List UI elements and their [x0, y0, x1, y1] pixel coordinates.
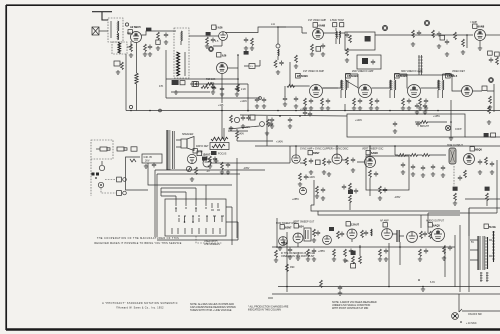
- fine tuning boxes: [172, 80, 179, 85]
- svg-text:+140V: +140V: [355, 119, 362, 122]
- svg-text:2 6J6: 2 6J6: [216, 26, 223, 30]
- contacts row3: [172, 228, 220, 234]
- driver tube: [407, 232, 418, 243]
- volume cluster: [445, 40, 449, 45]
- plug P2: [117, 147, 127, 151]
- svg-text:+140V: +140V: [300, 108, 307, 111]
- top right parts: [244, 51, 249, 55]
- vert out tube: [293, 233, 303, 243]
- svg-text:4.5MC TRAP: 4.5MC TRAP: [330, 19, 344, 22]
- small parts on feed: [114, 61, 120, 66]
- sync amp tube: [292, 155, 300, 163]
- svg-text:R19 10K: R19 10K: [206, 78, 216, 81]
- discriminator parts columns: [375, 34, 473, 36]
- parts right of tube: [478, 160, 482, 165]
- right parts cluster: [488, 51, 493, 55]
- parts right of clipper: [346, 157, 349, 165]
- svg-text:UHF MODELS: UHF MODELS: [204, 243, 220, 246]
- interlock dark terminals: [92, 173, 95, 176]
- clipper tube: [332, 154, 342, 164]
- svg-text:C5 6CB6: C5 6CB6: [347, 74, 358, 78]
- antenna transformer box (dashed): [108, 18, 123, 42]
- main B+ bus from tuner: [126, 110, 500, 112]
- plate wire of V1: [142, 31, 177, 35]
- bottom wire: [157, 232, 238, 240]
- bus extension: [465, 136, 500, 138]
- border frame top: [6, 4, 500, 6]
- svg-text:6SN7: 6SN7: [285, 225, 292, 229]
- blocking tube: [323, 236, 332, 245]
- svg-text:CONT: CONT: [455, 128, 462, 131]
- hor osc tube: [279, 237, 288, 246]
- wires: [300, 160, 365, 163]
- vert osc loop rect: [366, 156, 409, 190]
- bus junctions: [247, 110, 249, 112]
- svg-text:+140V: +140V: [276, 141, 283, 144]
- svg-text:5V: 5V: [471, 241, 474, 244]
- svg-text:+140V: +140V: [240, 100, 247, 103]
- B+ filter resistor chain: [398, 154, 406, 157]
- dashed UHF link: [196, 236, 222, 243]
- IF transformer 3: [438, 80, 439, 90]
- contacts row2: [178, 216, 186, 222]
- width coil box: [465, 198, 500, 200]
- svg-text:HOR OUTPUT: HOR OUTPUT: [447, 144, 463, 147]
- IF tube 2: [359, 85, 372, 98]
- osc label: [217, 53, 221, 57]
- long wires: [148, 163, 232, 185]
- B+ boxed terminals: [117, 177, 122, 182]
- B box: [194, 82, 199, 87]
- svg-text:RECEIVER MAKES IT POSSIBLE TO: RECEIVER MAKES IT POSSIBLE TO BRING YOU …: [94, 242, 181, 245]
- svg-text:AUDIO OUTPUT: AUDIO OUTPUT: [426, 220, 445, 223]
- svg-text:+140V: +140V: [243, 126, 250, 129]
- video amp cathode parts: [311, 44, 314, 52]
- svg-text:OPERATION SEE PARTS LIST: OPERATION SEE PARTS LIST: [281, 255, 315, 258]
- svg-text:+ 117VAC: + 117VAC: [466, 322, 477, 325]
- mixer tube V2a: [219, 32, 228, 41]
- feed from +105: [222, 106, 224, 139]
- wire mixer to video amp: [278, 27, 307, 33]
- alignment diamond: [209, 47, 214, 52]
- svg-text:VERT SWEEP OUT: VERT SWEEP OUT: [293, 221, 315, 224]
- svg-text:SYNC AMP + SYNC CLIPPER + SYNC: SYNC AMP + SYNC CLIPPER + SYNC DISC: [300, 148, 349, 151]
- IF transformer 1: [341, 80, 342, 90]
- border frame bottom: [6, 328, 500, 330]
- plug P3: [131, 147, 273, 298]
- audio output tube: [432, 229, 445, 242]
- svg-text:VERT SWEEP OSC: VERT SWEEP OSC: [362, 148, 384, 151]
- svg-text:2KV: 2KV: [145, 160, 150, 163]
- svg-text:TAKEN WITH VTVM + LINE VOLTAGE: TAKEN WITH VTVM + LINE VOLTAGE: [190, 309, 232, 312]
- contacts row1: [175, 201, 177, 212]
- svg-text:6.3V: 6.3V: [430, 281, 435, 284]
- line from HV cage: [468, 208, 470, 236]
- IF tube 1: [310, 85, 323, 98]
- cathode parts below V1: [144, 44, 147, 52]
- svg-text:+285V: +285V: [292, 198, 299, 201]
- IF tube 3: [408, 85, 421, 98]
- feed wires from top: [176, 185, 206, 201]
- svg-text:6BQ6: 6BQ6: [475, 147, 482, 151]
- grid resistor under tube: [130, 44, 133, 52]
- taps: [470, 240, 492, 260]
- svg-text:A "PHOTOFACT" STANDARD NOTATIO: A "PHOTOFACT" STANDARD NOTATION SCHEMATI…: [102, 302, 178, 305]
- audio output transformer T7: [166, 130, 168, 170]
- svg-text:3RD VIDEO IF AMP: 3RD VIDEO IF AMP: [401, 70, 423, 73]
- agc cluster below bus: [230, 115, 233, 123]
- border frame left: [5, 5, 7, 330]
- below tube parts: [464, 170, 467, 178]
- sound block rect: [345, 32, 375, 50]
- svg-text:SPEAKER: SPEAKER: [182, 133, 194, 136]
- contrast control: [450, 100, 452, 136]
- vertical feed wires: [454, 235, 456, 287]
- resistor to osc: [201, 86, 209, 89]
- mid column parts: [342, 185, 346, 190]
- parts column: [313, 229, 316, 237]
- cathode parts row: [275, 250, 278, 258]
- filament winding below: [481, 272, 487, 282]
- yoke terminal block: [126, 157, 149, 190]
- vert osc tube: [365, 157, 376, 168]
- svg-text:6AQ5: 6AQ5: [433, 223, 440, 227]
- parts: [361, 230, 364, 238]
- vertical feed wires: [126, 43, 137, 111]
- brightness pot resistor: [420, 121, 428, 124]
- svg-text:47K: 47K: [159, 85, 164, 88]
- rectifier label: [484, 224, 488, 228]
- boxed stack: [351, 251, 356, 255]
- long return wire: [166, 97, 260, 99]
- interstage wires top: [290, 62, 359, 88]
- right cluster: [488, 106, 491, 114]
- svg-text:2ND VIDEO IF AMP: 2ND VIDEO IF AMP: [352, 70, 374, 73]
- svg-text:+255V: +255V: [318, 250, 325, 253]
- IF transformer 2: [390, 80, 391, 90]
- svg-text:-105V: -105V: [243, 167, 250, 170]
- svg-text:BRIGHT: BRIGHT: [420, 125, 430, 128]
- hor output tube: [470, 147, 474, 151]
- bus: [272, 246, 455, 248]
- af amp tube: [382, 229, 393, 240]
- svg-text:AF AMP: AF AMP: [380, 220, 389, 223]
- lower bus stub: [344, 104, 346, 111]
- top bus: [255, 145, 500, 147]
- secondary coil box: [112, 42, 127, 54]
- svg-text:E5 6AL5: E5 6AL5: [447, 74, 458, 78]
- antenna: [92, 12, 112, 20]
- svg-text:RATIO DET: RATIO DET: [196, 145, 209, 148]
- agc pot: [260, 122, 265, 127]
- phono jack J1: [99, 165, 104, 170]
- mixer transformer (dashed tall box): [174, 28, 189, 78]
- svg-text:12AU7: 12AU7: [351, 222, 360, 226]
- parts on plate run: [146, 28, 151, 32]
- parts between sync tubes: [304, 158, 307, 166]
- integrator cluster: [316, 186, 319, 194]
- vert osc tube: [347, 229, 357, 239]
- electrolytic can: [449, 148, 456, 164]
- label 6BC5: [125, 23, 128, 26]
- dashed interconnect cable: [91, 140, 113, 159]
- tube V5: [475, 30, 486, 41]
- svg-text:6AN8: 6AN8: [371, 151, 378, 155]
- osc coil box: [304, 228, 311, 241]
- svg-text:-1V: -1V: [206, 170, 210, 173]
- jack J2: [98, 182, 103, 187]
- svg-text:= AMP: = AMP: [470, 21, 478, 24]
- mixer plate to video IF: [225, 27, 286, 33]
- svg-text:6S4: 6S4: [299, 224, 304, 228]
- svg-text:ON-OFF SW: ON-OFF SW: [468, 313, 482, 316]
- secondary winding right: [493, 231, 495, 262]
- sync takeoff tube: [197, 151, 202, 156]
- sync amp lower parts: [299, 173, 302, 181]
- right side verticals: [226, 207, 238, 245]
- svg-text:FOCUS: FOCUS: [218, 153, 227, 156]
- junction at bus: [130, 110, 132, 112]
- svg-text:-105V: -105V: [394, 196, 401, 199]
- svg-text:6SN7: 6SN7: [313, 151, 320, 155]
- svg-text:B5 6CB6: B5 6CB6: [297, 74, 308, 78]
- video detector tube: [462, 86, 473, 97]
- sound if transformer T6: [419, 55, 422, 75]
- svg-text:6AN8: 6AN8: [478, 25, 485, 29]
- svg-text:L11: L11: [271, 23, 275, 26]
- power transformer T8: [477, 236, 479, 270]
- filter caps row: [415, 104, 419, 109]
- svg-text:A2 6BC5: A2 6BC5: [130, 25, 141, 29]
- small rect with part: [357, 55, 381, 69]
- svg-text:+135V: +135V: [433, 115, 440, 118]
- AGC feed wire: [190, 84, 248, 111]
- svg-text:1ST VIDEO IF AMP: 1ST VIDEO IF AMP: [303, 70, 324, 73]
- svg-text:6AN8: 6AN8: [318, 23, 325, 27]
- bottom wire of tuner: [166, 78, 214, 80]
- coupling electrolytic: [397, 230, 399, 242]
- svg-text:R88: R88: [344, 260, 349, 263]
- antenna terminal box: [92, 27, 99, 35]
- svg-text:R90: R90: [290, 266, 295, 269]
- svg-text:D5 6CB6: D5 6CB6: [396, 74, 407, 78]
- hanging filter caps: [401, 163, 405, 168]
- tube V1 RF amp: [131, 32, 142, 43]
- svg-text:VIDEO DET: VIDEO DET: [452, 70, 465, 73]
- tube V4 video amp: [313, 29, 324, 40]
- per-stage cathode/screen parts: [294, 97, 330, 111]
- svg-text:THE COOPERATION OF THE MANUFAC: THE COOPERATION OF THE MANUFACTURER OF T…: [97, 237, 179, 240]
- svg-text:2.2K: 2.2K: [241, 88, 246, 91]
- svg-text:12AU7: 12AU7: [202, 152, 211, 156]
- osc feedback parts: [237, 55, 239, 92]
- plug P1: [96, 147, 110, 151]
- svg-text:+105: +105: [218, 104, 224, 107]
- yoke plug box: [142, 154, 162, 163]
- stepped feed wires from sync: [311, 205, 460, 211]
- svg-text:©Howard W. Sams & Co., Inc. 19: ©Howard W. Sams & Co., Inc. 1952: [116, 307, 164, 310]
- focus resistor block: [211, 137, 228, 141]
- svg-text:6J6: 6J6: [222, 53, 227, 57]
- osc tube V2b: [217, 63, 228, 74]
- 6T8 det tube: [193, 149, 197, 153]
- svg-text:+140V: +140V: [308, 176, 315, 179]
- svg-text:INDICATED IN THIS COLUMN: INDICATED IN THIS COLUMN: [248, 309, 281, 312]
- parts below vert osc: [369, 170, 372, 178]
- svg-text:1ST VIDEO AMP: 1ST VIDEO AMP: [308, 19, 327, 22]
- grid parts: [206, 32, 211, 35]
- detector output parts: [489, 96, 492, 104]
- svg-text:5U4G: 5U4G: [489, 225, 496, 229]
- svg-text:WITH POINT CONTRAST AT MIN: WITH POINT CONTRAST AT MIN: [332, 307, 368, 310]
- wires to +140: [229, 126, 260, 129]
- alignment diamond markers: [382, 25, 387, 30]
